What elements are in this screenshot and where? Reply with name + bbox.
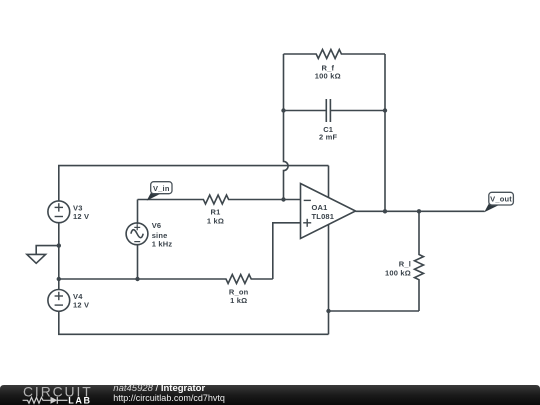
wire op-amp V- pin column: [328, 225, 330, 335]
svg-text:V6: V6: [152, 221, 162, 230]
svg-text:V3: V3: [73, 203, 83, 212]
label R1 value: [207, 208, 224, 226]
svg-text:12 V: 12 V: [73, 212, 89, 221]
svg-text:R_on: R_on: [229, 288, 249, 297]
node junction inverting input: [281, 197, 285, 201]
label R_on value: [229, 288, 249, 306]
svg-text:V_out: V_out: [490, 195, 512, 204]
svg-text:R1: R1: [211, 208, 221, 217]
svg-text:TL081: TL081: [312, 212, 335, 221]
label OA1 TL081: [312, 203, 335, 221]
svg-text:V_in: V_in: [153, 184, 170, 193]
label V3 value: [73, 203, 89, 221]
node junction ground: [57, 243, 61, 247]
svg-text:LAB: LAB: [68, 395, 91, 405]
logo squiggle resistor diode: [23, 397, 68, 404]
svg-text:OA1: OA1: [312, 203, 328, 212]
node junction mid rail: [57, 277, 61, 281]
wire feedback left rail with hop: [284, 54, 289, 200]
wire R_l bottom: [329, 310, 420, 312]
node junction C1 left: [281, 108, 285, 112]
svg-text:1 kHz: 1 kHz: [152, 239, 173, 248]
label V6 value: [152, 221, 173, 248]
label V4 value: [73, 292, 89, 310]
wire V6 top stub: [137, 200, 139, 225]
ground: [27, 246, 59, 264]
node V_in flag: [147, 182, 172, 201]
wire top rail V3 to op-amp V+: [59, 166, 329, 201]
svg-text:R_l: R_l: [399, 259, 411, 268]
wire V6 bottom stub: [137, 245, 139, 279]
svg-text:12 V: 12 V: [73, 301, 89, 310]
node junction V6 bottom: [135, 277, 139, 281]
node junction R_l top: [417, 209, 421, 213]
resistor R_l: [415, 211, 424, 311]
svg-text:2 mF: 2 mF: [319, 133, 338, 142]
node V_out flag: [484, 192, 513, 212]
svg-text:V4: V4: [73, 292, 83, 301]
op-amp OA1: [301, 184, 356, 239]
svg-text:http://circuitlab.com/cd7hvtq: http://circuitlab.com/cd7hvtq: [113, 393, 225, 403]
svg-text:1 kΩ: 1 kΩ: [230, 296, 247, 305]
wire bottom rail: [59, 311, 329, 334]
label R_l value: [385, 259, 411, 277]
voltage source V6: [126, 223, 148, 245]
resistor R1: [138, 195, 301, 204]
resistor R_f: [284, 50, 386, 59]
svg-text:1 kΩ: 1 kΩ: [207, 216, 224, 225]
label C1 value: [319, 125, 338, 142]
svg-text:100 kΩ: 100 kΩ: [385, 269, 411, 278]
node junction C1 right: [383, 108, 387, 112]
wire output: [356, 210, 485, 212]
footer bar: [0, 385, 540, 405]
svg-text:100 kΩ: 100 kΩ: [315, 71, 341, 80]
voltage source V4: [48, 290, 70, 312]
voltage source V3: [48, 201, 70, 223]
wire noninverting input riser: [273, 223, 301, 279]
node junction feedback output: [383, 209, 387, 213]
wire feedback right rail: [384, 54, 386, 211]
wire V3 bottom: [58, 223, 60, 290]
node junction V- column: [326, 309, 330, 313]
wire op-amp V+ pin: [328, 166, 330, 198]
label R_f value: [315, 64, 341, 81]
capacitor C1: [284, 99, 386, 122]
resistor R_on: [59, 275, 273, 284]
